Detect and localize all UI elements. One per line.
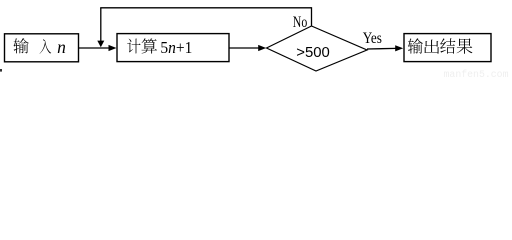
decision diamond >500: [267, 26, 368, 71]
wire No-loop: top horizontal segment: [100, 7, 311, 9]
flowchart box: input n: [5, 34, 79, 62]
svg-text:>500: >500: [296, 44, 330, 61]
wire box1 to box2: [79, 47, 110, 49]
arrowhead into box2: [109, 45, 117, 51]
label 计 (box2): [127, 39, 140, 54]
label 输 (box1): [13, 38, 28, 53]
arrowhead into box3: [395, 45, 403, 51]
arrowhead into diamond: [258, 45, 266, 51]
flowchart box: compute 5n+1: [117, 34, 229, 62]
svg-text:No: No: [293, 14, 308, 31]
label 出 (box3): [424, 40, 439, 54]
label 果 (box3): [457, 38, 473, 53]
svg-text:manfen5.com: manfen5.com: [444, 69, 509, 78]
wire box2 to diamond: [229, 47, 259, 49]
label 输 (box3): [408, 38, 423, 53]
label 结 (box3): [440, 38, 455, 53]
label 算 (box2): [142, 38, 157, 53]
svg-text:5n+1: 5n+1: [160, 38, 192, 57]
wire No-loop: down segment into junction: [100, 8, 102, 41]
svg-text:n: n: [57, 37, 66, 57]
svg-text:Yes: Yes: [363, 30, 382, 47]
flowchart box: output result: [404, 34, 491, 62]
label 入 (box1): [40, 39, 52, 53]
arrowhead down at junction: [97, 41, 104, 48]
wire No-loop: right vertical segment to diamond top: [311, 7, 313, 26]
wire diamond to box3 (Yes branch): [367, 47, 396, 50]
stray ink speck bottom-left: [0, 69, 2, 72]
